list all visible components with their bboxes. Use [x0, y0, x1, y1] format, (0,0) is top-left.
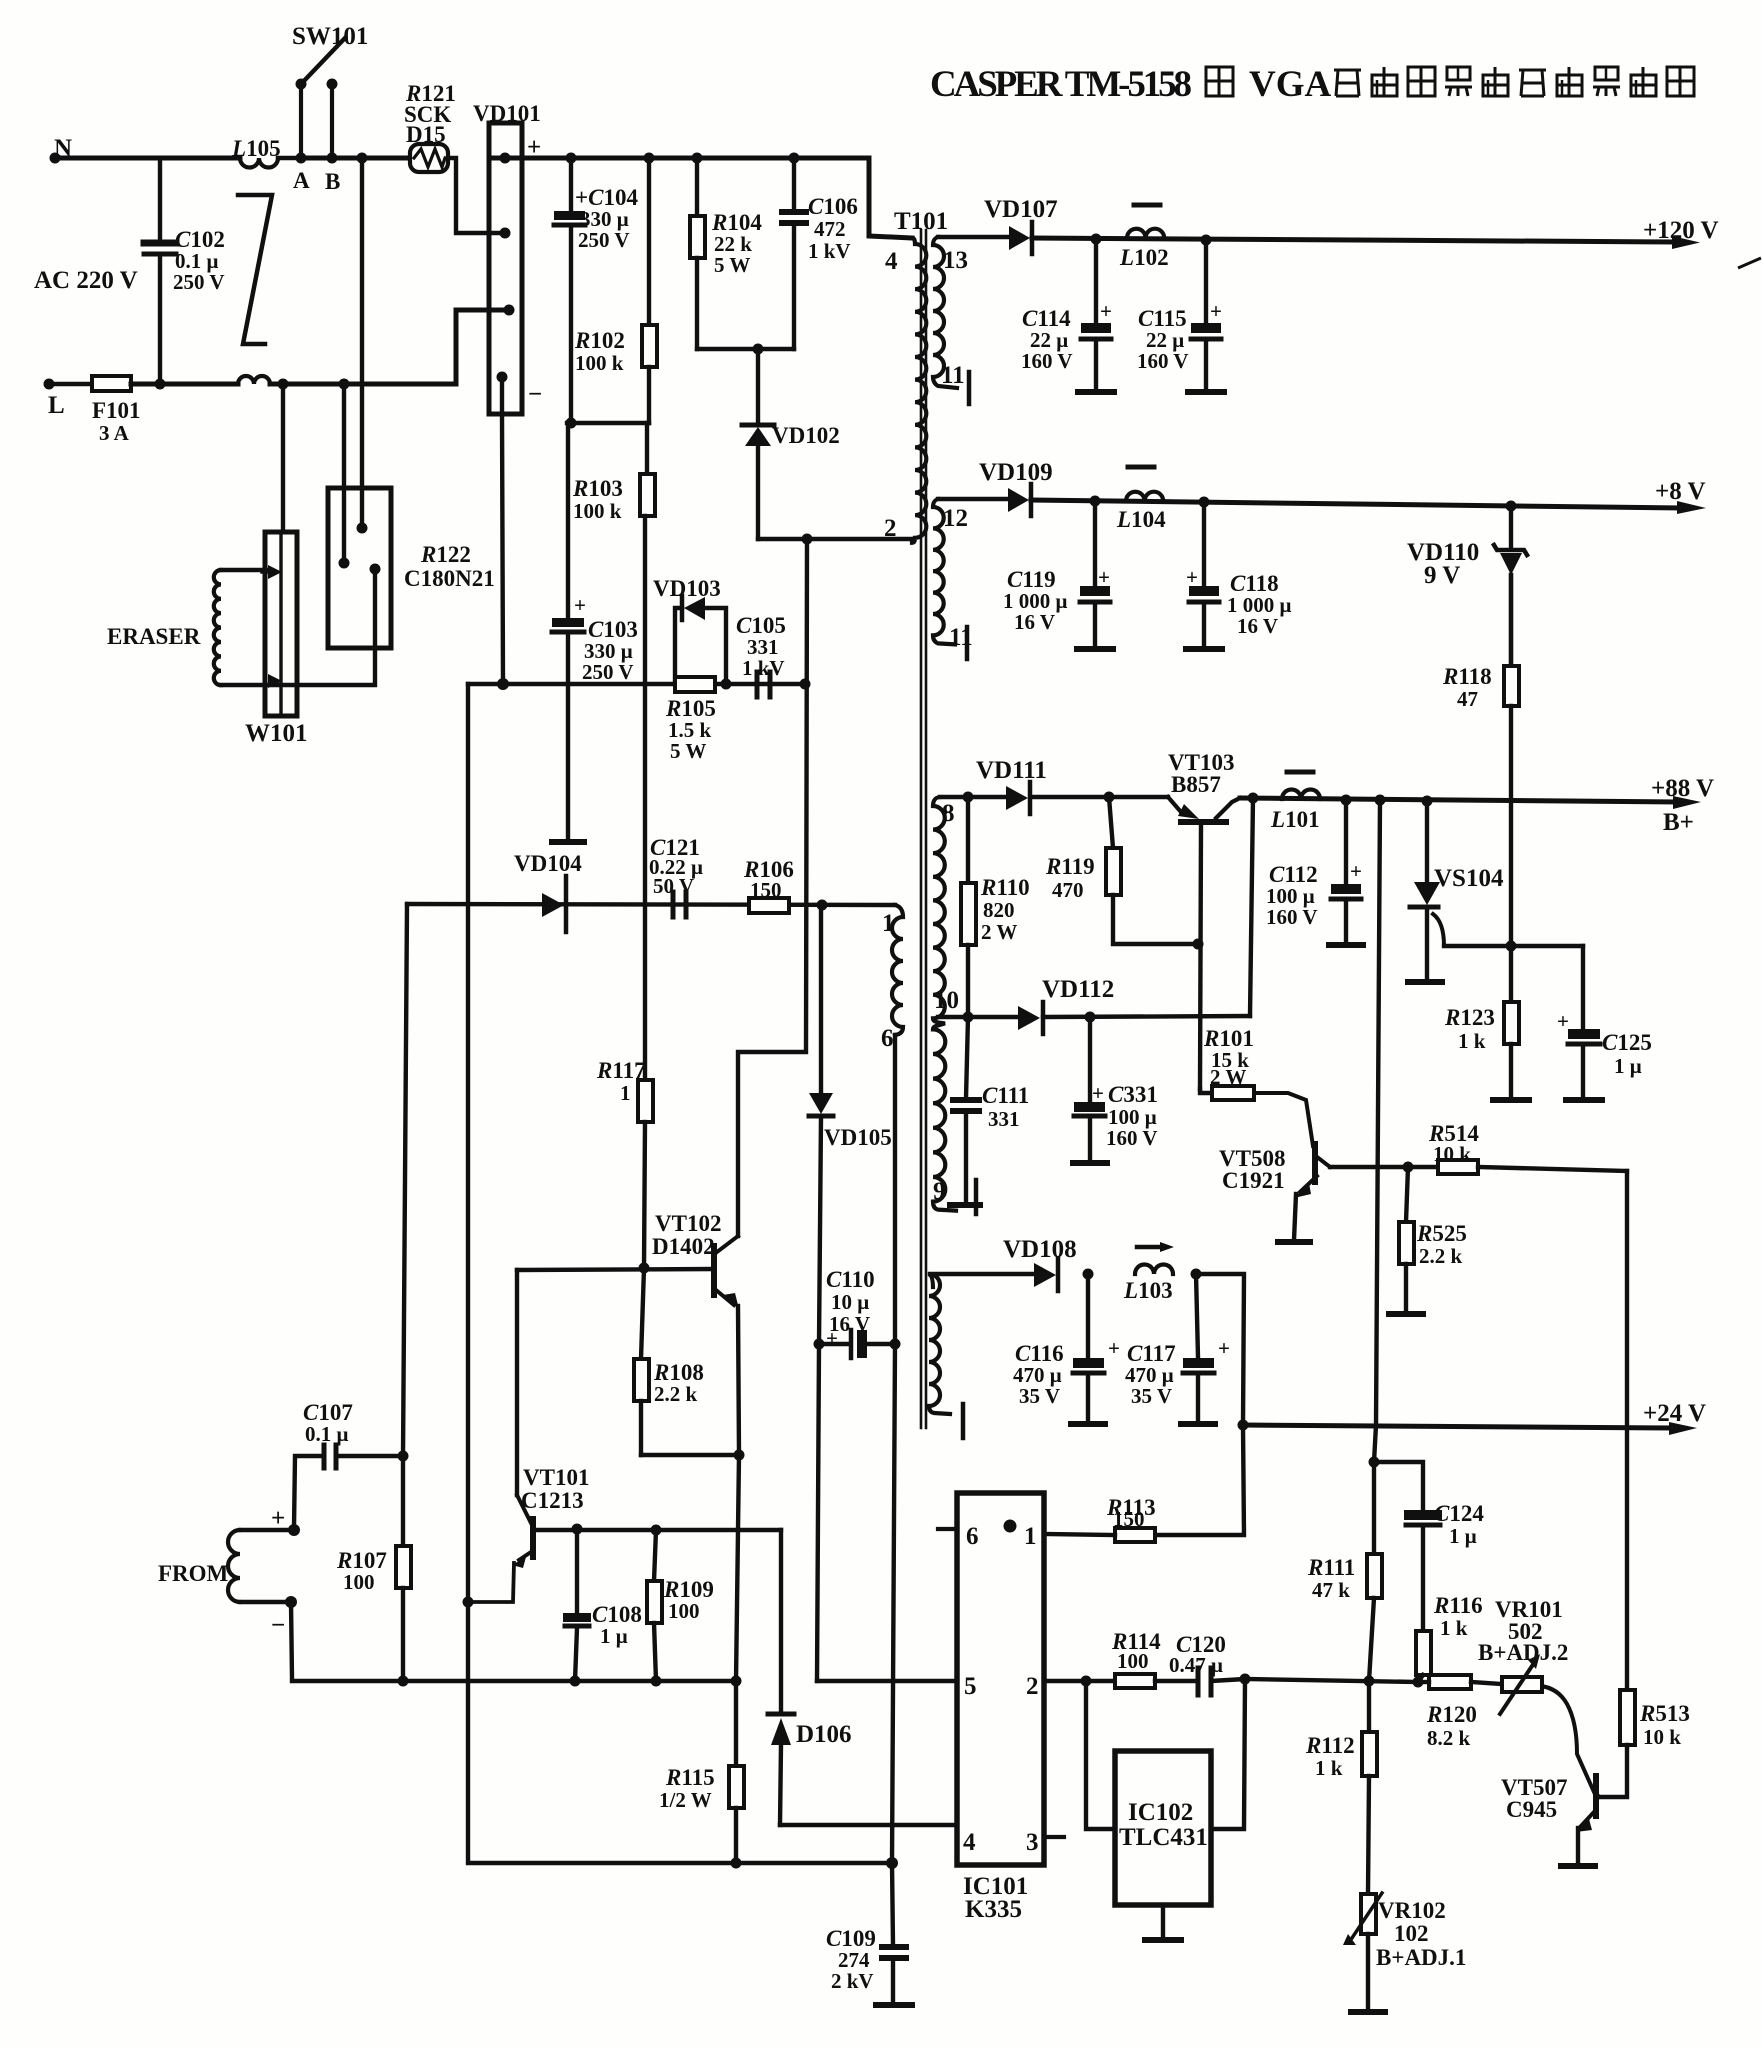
resistor R111 [1367, 1554, 1382, 1681]
svg-text:F101: F101 [92, 398, 141, 423]
node C118 tap [1199, 497, 1210, 508]
resistor R104 [690, 158, 705, 349]
svg-text:3: 3 [1026, 1829, 1039, 1856]
wire feedback divider column [1374, 800, 1380, 1554]
svg-text:9: 9 [933, 1178, 946, 1205]
svg-text:331: 331 [988, 1107, 1020, 1131]
svg-text:L103: L103 [1123, 1278, 1173, 1303]
svg-text:+: + [1100, 299, 1112, 323]
wire junction row [567, 421, 649, 425]
svg-text:B+: B+ [1663, 809, 1694, 836]
svg-text:100: 100 [343, 1570, 375, 1594]
node C117 tap [1191, 1269, 1202, 1280]
potentiometer VR101 [1500, 1654, 1542, 1714]
resistor R115 [729, 1681, 744, 1863]
svg-text:VR102: VR102 [1378, 1898, 1446, 1923]
node C124 branch [1369, 1457, 1380, 1468]
transistor VT101 C1213 [468, 1495, 533, 1602]
wire FROM minus to ground line [291, 1602, 736, 1681]
svg-text:+: + [271, 1505, 285, 1532]
wire +120V rail [1032, 238, 1675, 242]
capacitor C120 [1198, 1668, 1245, 1695]
transformer T101 secondary 12-11 [933, 499, 955, 644]
wire pin5 riser to C110 [817, 1344, 819, 1681]
wire pin10 line east [1043, 1016, 1250, 1017]
thyristor VS104 [1410, 801, 1583, 980]
capacitor C117 electrolytic [1183, 1274, 1214, 1422]
svg-text:C106: C106 [808, 194, 858, 219]
ground C331 [1073, 1160, 1107, 1166]
wire R103 to R117 to VT102 base [643, 516, 647, 1080]
diode D106 [768, 1714, 794, 1825]
svg-text:100: 100 [668, 1599, 700, 1623]
node pin8/R110 [963, 792, 974, 803]
svg-text:102: 102 [1394, 1921, 1429, 1946]
svg-text:160 V: 160 V [1266, 905, 1318, 929]
wire feedback node line [1245, 1679, 1418, 1682]
node A [296, 153, 307, 164]
wire VD101 minus output [502, 377, 503, 682]
svg-text:C111: C111 [982, 1083, 1029, 1108]
wire emitter column down [736, 1455, 739, 1681]
diode VD111 [1006, 782, 1030, 814]
node C108 bottom [570, 1676, 581, 1687]
node VD101minus on H684 [497, 678, 509, 690]
svg-text:470: 470 [1052, 878, 1084, 902]
capacitor C105 [757, 672, 770, 697]
svg-text:5 W: 5 W [714, 253, 750, 277]
resistor R101 [1200, 1086, 1313, 1146]
wire R117 to VT102 base node [644, 1122, 645, 1268]
fuse F101 [92, 376, 131, 391]
svg-text:+: + [1186, 565, 1198, 589]
node B [327, 153, 338, 164]
wire VD101 + output rail [489, 158, 912, 238]
svg-text:2: 2 [1026, 1673, 1039, 1700]
svg-text:9 V: 9 V [1424, 562, 1460, 589]
svg-text:2: 2 [884, 515, 897, 542]
transformer T101 feedback winding 1-6 [892, 905, 903, 1035]
node VT103 collector / VD112 riser [1248, 793, 1259, 804]
transformer T101 core [921, 230, 926, 1428]
ground C112 [1329, 942, 1363, 948]
wire IC101 pin2 line [1044, 1679, 1115, 1683]
resistor R107 [396, 1456, 411, 1681]
svg-text:SW101: SW101 [292, 23, 368, 50]
transformer T101 secondary 24V winding [929, 1274, 950, 1414]
svg-text:0.47 μ: 0.47 μ [1169, 1653, 1223, 1677]
ground R525 [1389, 1311, 1423, 1317]
svg-text:L104: L104 [1116, 507, 1166, 532]
svg-text:1 μ: 1 μ [1449, 1524, 1477, 1548]
resistor R112 [1362, 1681, 1377, 1894]
wire pin6 column down to bottom rail [892, 1344, 895, 1863]
capacitor C103 electrolytic [552, 427, 584, 840]
svg-text:C945: C945 [1506, 1797, 1557, 1822]
resistor R108 [634, 1268, 649, 1455]
svg-text:16 V: 16 V [1014, 610, 1055, 634]
svg-text:R120: R120 [1426, 1702, 1477, 1727]
transformer T101 secondary 8-10-9 [933, 797, 956, 1211]
svg-text:160 V: 160 V [1021, 349, 1073, 373]
resistor R514 [1408, 1160, 1627, 1174]
capacitor C110 electrolytic [819, 1330, 895, 1358]
capacitor C115 electrolytic [1191, 240, 1221, 390]
svg-text:+: + [1108, 1336, 1120, 1360]
svg-text:2 W: 2 W [981, 920, 1017, 944]
potentiometer VR102 [1343, 1893, 1382, 2010]
node FROM minus corner [285, 1596, 297, 1608]
node R110/C111 on pin10 line [963, 1012, 974, 1023]
svg-text:C1921: C1921 [1222, 1168, 1285, 1193]
wire V468 startup return [468, 684, 892, 1863]
svg-text:1: 1 [1024, 1523, 1037, 1550]
diode VD104 [542, 876, 566, 932]
capacitor C107 [294, 1445, 403, 1528]
node R111-R112 junction [1364, 1676, 1375, 1687]
node R525 tap [1403, 1162, 1414, 1173]
node C104/R102 junction row [566, 418, 577, 429]
svg-text:B+ADJ.1: B+ADJ.1 [1376, 1945, 1466, 1970]
wire 24V winding top out [930, 1272, 1034, 1276]
ground C117 [1181, 1421, 1215, 1427]
resistor R110 [961, 797, 976, 1017]
svg-text:VD112: VD112 [1042, 976, 1114, 1003]
ground C118 [1186, 646, 1222, 652]
svg-text:VD109: VD109 [979, 459, 1053, 486]
ground C103 [552, 839, 584, 845]
svg-text:0.1 μ: 0.1 μ [305, 1422, 349, 1446]
svg-text:4: 4 [885, 248, 898, 275]
svg-text:R102: R102 [574, 328, 625, 353]
terminal pin11b [965, 627, 970, 659]
svg-text:100 k: 100 k [573, 499, 622, 523]
IC101 orientation dot [1004, 1520, 1017, 1533]
svg-text:C180N21: C180N21 [404, 566, 495, 591]
ground C115 [1188, 389, 1224, 395]
svg-text:5 W: 5 W [670, 739, 706, 763]
svg-text:VGA: VGA [1249, 64, 1332, 105]
svg-text:AC 220 V: AC 220 V [34, 267, 138, 294]
svg-text:1: 1 [882, 910, 895, 937]
node C331 tap [1085, 1012, 1096, 1023]
svg-text:250 V: 250 V [173, 270, 225, 294]
node +24V L103 junction [1238, 1420, 1249, 1431]
svg-text:VD101: VD101 [473, 101, 541, 126]
node VD101 ac2 [504, 305, 515, 316]
diode VD109 [1008, 484, 1031, 516]
polarity dash L102 [1134, 203, 1160, 208]
svg-text:10 k: 10 k [1643, 1725, 1681, 1749]
svg-text:R110: R110 [980, 875, 1030, 900]
corner VD104 line to R107 column [403, 904, 407, 1456]
node C116 tap [1083, 1269, 1094, 1280]
node R116 bottom junction [1413, 1677, 1424, 1688]
svg-text:250 V: 250 V [578, 228, 630, 252]
resistor R109 [647, 1530, 662, 1681]
svg-text:R119: R119 [1045, 854, 1095, 879]
degaussing thermistor mark [238, 195, 272, 344]
node R122 anode stub [339, 558, 350, 569]
svg-text:R117: R117 [596, 1058, 646, 1083]
arrow +120V [1672, 236, 1700, 249]
wire IC102 ref loop [1086, 1681, 1115, 1829]
svg-text:150: 150 [750, 878, 782, 902]
capacitor C112 electrolytic [1331, 800, 1361, 943]
diode VD108 [1034, 1259, 1058, 1291]
polarity dash L104 [1128, 465, 1154, 470]
svg-text:+88 V: +88 V [1651, 775, 1714, 802]
svg-text:+: + [1092, 1081, 1104, 1105]
node bottom rail C109 tap [886, 1857, 898, 1869]
svg-text:47: 47 [1457, 687, 1478, 711]
svg-text:VT101: VT101 [523, 1465, 589, 1490]
node R108 top [639, 1263, 650, 1274]
svg-text:1/2 W: 1/2 W [659, 1788, 712, 1812]
polarity dash L101 [1287, 770, 1313, 775]
svg-text:TLC431: TLC431 [1119, 1824, 1208, 1851]
wire IC101 pin5 line [817, 1679, 957, 1683]
svg-text:+: + [1210, 299, 1222, 323]
svg-text:35 V: 35 V [1019, 1384, 1060, 1408]
svg-text:10: 10 [934, 987, 959, 1014]
svg-text:+120 V: +120 V [1643, 217, 1719, 244]
wire R114 to C120 [1155, 1679, 1196, 1683]
svg-text:R118: R118 [1442, 664, 1492, 689]
resistor R106 [749, 898, 789, 913]
node after L105b [278, 379, 289, 390]
svg-text:IC102: IC102 [1128, 1799, 1193, 1826]
ground R123 [1493, 1097, 1529, 1103]
node R122 anode tap [339, 379, 350, 390]
bridge rectifier VD101 [489, 123, 522, 414]
inductor L102 [1127, 229, 1164, 238]
svg-text:50 V: 50 V [653, 874, 694, 898]
svg-text:250 V: 250 V [582, 660, 634, 684]
wire eraser top [221, 568, 268, 572]
wire L rail to VD101 AC2 [270, 310, 509, 384]
node R106 to VD105 [817, 900, 828, 911]
svg-text:R115: R115 [665, 1765, 715, 1790]
resistor R103 [640, 423, 655, 516]
svg-text:35 V: 35 V [1131, 1384, 1172, 1408]
svg-text:FROM: FROM [158, 1561, 229, 1586]
arrow +88V [1673, 796, 1701, 809]
node L terminal [44, 379, 55, 390]
node bottom rail R115 tap [731, 1858, 742, 1869]
node VD101 minus [497, 372, 508, 383]
resistor R116 [1416, 1631, 1431, 1682]
wire +88V rail west [1032, 795, 1168, 799]
node R115 top [731, 1676, 742, 1687]
svg-text:1 kV: 1 kV [742, 656, 785, 680]
wire VD112 riser [1250, 798, 1253, 1016]
capacitor C104 electrolytic [554, 158, 585, 423]
node C114 tap [1091, 234, 1102, 245]
resistor R525 [1399, 1167, 1414, 1312]
PTC W101 [262, 532, 297, 716]
svg-text:+8 V: +8 V [1655, 478, 1706, 505]
node C108 top [572, 1524, 583, 1535]
IC101 pin3 stub [1044, 1835, 1064, 1839]
svg-text:VT102: VT102 [655, 1211, 721, 1236]
wire R122 anode from L rail [342, 384, 346, 563]
svg-text:VD104: VD104 [514, 851, 582, 876]
eraser coil ERASER [214, 570, 221, 685]
inductor L105 winding a [240, 158, 278, 168]
node C120 right junction [1240, 1674, 1251, 1685]
IC101 pin6 stub [938, 1527, 957, 1531]
svg-text:VD102: VD102 [772, 423, 840, 448]
node R109 bottom [651, 1676, 662, 1687]
svg-text:8.2 k: 8.2 k [1427, 1726, 1471, 1750]
resistor R119 [1106, 797, 1198, 944]
wire R118 down through B+ to R123 [1509, 706, 1513, 1002]
svg-text:11: 11 [941, 362, 965, 389]
svg-text:3 A: 3 A [99, 421, 130, 445]
svg-text:VS104: VS104 [1434, 865, 1504, 892]
capacitor C121 [673, 892, 686, 917]
wire R121 to VD101 AC1 [448, 158, 505, 233]
stray mark top right [1738, 258, 1761, 268]
node R102 tap [644, 153, 655, 164]
wire R106 line [407, 904, 895, 905]
wire IC102 ground stub [1161, 1905, 1165, 1938]
resistor R118 [1504, 666, 1519, 706]
svg-text:+24 V: +24 V [1643, 1400, 1706, 1427]
wire +24V rail [1243, 1425, 1672, 1428]
node VS104 anode tap [1422, 796, 1433, 807]
svg-text:B+ADJ.2: B+ADJ.2 [1478, 1640, 1568, 1665]
node junction to R122 gate line [357, 153, 368, 164]
node R104 tap [692, 153, 703, 164]
wire eraser bottom loop to R122 cathode [221, 569, 375, 685]
node pin2/R114 junction [1081, 1676, 1092, 1687]
diode VD112 [1018, 1002, 1043, 1034]
svg-text:R122: R122 [420, 542, 471, 567]
capacitor C106 [782, 158, 806, 349]
transformer T101 secondary 13-11 [933, 237, 957, 388]
svg-text:R513: R513 [1639, 1701, 1690, 1726]
inductor L103 [1135, 1265, 1173, 1274]
svg-text:10 k: 10 k [1433, 1142, 1471, 1166]
capacitor C116 electrolytic [1073, 1274, 1104, 1422]
svg-text:L: L [48, 392, 65, 419]
svg-text:472: 472 [814, 217, 846, 241]
node C115 tap [1201, 235, 1212, 246]
svg-text:−: − [528, 381, 542, 408]
svg-text:160 V: 160 V [1137, 349, 1189, 373]
wire L105 to A [278, 156, 301, 160]
svg-text:1 μ: 1 μ [600, 1624, 628, 1648]
svg-text:A: A [293, 168, 310, 193]
wire pin10 out VD112 line [938, 1015, 1018, 1019]
svg-text:R123: R123 [1444, 1005, 1495, 1030]
node C112 tap [1341, 795, 1352, 806]
wire H684 VD101minus to V806 [468, 682, 805, 686]
resistor R113 [1115, 1528, 1155, 1542]
svg-text:100: 100 [1117, 1649, 1149, 1673]
capacitor C102 [144, 158, 176, 384]
arrow +8V [1677, 501, 1706, 514]
resistor R120 [1418, 1675, 1502, 1689]
wire VT102 collector link to pin2 node [738, 539, 807, 1236]
node C104 tap [566, 153, 577, 164]
wire pin13 out [938, 235, 1009, 239]
svg-text:W101: W101 [245, 720, 308, 747]
thyristor R122 C180N21 body [328, 488, 391, 648]
wire pin12 out [938, 497, 1008, 501]
wire pin8 out [940, 795, 1006, 799]
svg-text:1 kV: 1 kV [808, 239, 851, 263]
svg-text:2.2 k: 2.2 k [654, 1382, 698, 1406]
IC102 box TLC431 [1115, 1751, 1211, 1905]
svg-text:160 V: 160 V [1106, 1126, 1158, 1150]
resistor R102 [642, 158, 657, 423]
wire pin2 line [758, 537, 912, 541]
transistor VT508 C1921 [1294, 1144, 1408, 1240]
svg-text:R525: R525 [1416, 1221, 1467, 1246]
ground VT508 emitter [1278, 1239, 1310, 1245]
wire VT101 collector riser [515, 1270, 519, 1495]
ground VT507 [1561, 1863, 1595, 1869]
wire R104-C106 bottom link [697, 347, 794, 351]
svg-text:VD108: VD108 [1003, 1236, 1077, 1263]
fuse resistor R121 SCK D15 [410, 144, 448, 172]
node VD101 ac1 [500, 228, 511, 239]
svg-text:B857: B857 [1171, 772, 1221, 797]
switch SW101 [296, 38, 346, 158]
svg-text:B: B [325, 169, 340, 194]
node VD110 tap [1506, 501, 1517, 512]
svg-text:150: 150 [1113, 1507, 1145, 1531]
svg-text:CASPER TM-5158: CASPER TM-5158 [930, 64, 1192, 105]
svg-text:1: 1 [620, 1081, 631, 1105]
node feedback divider tap [1375, 795, 1386, 806]
node C110 left [814, 1339, 825, 1350]
svg-text:+: + [1350, 859, 1362, 883]
wire R108 bottom to emitter column [641, 1453, 739, 1457]
svg-text:ERASER: ERASER [107, 624, 201, 649]
wire R122 gate from top rail [360, 158, 364, 528]
terminal 24V winding bottom [961, 1404, 966, 1438]
wire R514 to R513 riser [1625, 1171, 1629, 1690]
svg-text:47 k: 47 k [1312, 1578, 1350, 1602]
wire C124 branch [1374, 1462, 1423, 1509]
svg-text:T101: T101 [894, 208, 948, 235]
svg-text:6: 6 [966, 1523, 979, 1550]
svg-text:N: N [54, 135, 72, 162]
node R119 tap [1104, 792, 1115, 803]
node VS104 gate junction [1506, 941, 1517, 952]
svg-text:10 μ: 10 μ [831, 1290, 869, 1314]
node R109 top [651, 1525, 662, 1536]
svg-text:VD103: VD103 [653, 576, 721, 601]
wire L to F101 [49, 382, 92, 386]
arrow +24V [1669, 1422, 1697, 1435]
svg-text:C124: C124 [1434, 1501, 1484, 1526]
wire R113 to IC101 pin1 [1044, 1534, 1115, 1535]
svg-text:L101: L101 [1270, 807, 1320, 832]
wire +24V down to R113 corner [1155, 1425, 1244, 1535]
ground IC102 [1145, 1937, 1181, 1943]
title: CASPER TM-5158 VGA power supply circuit [930, 64, 1694, 105]
transistor VT102 D1402 [714, 1236, 739, 1455]
svg-text:D106: D106 [796, 1721, 852, 1748]
terminal pin11a [967, 372, 972, 404]
svg-text:1 k: 1 k [1440, 1616, 1468, 1640]
svg-text:−: − [271, 1612, 285, 1639]
